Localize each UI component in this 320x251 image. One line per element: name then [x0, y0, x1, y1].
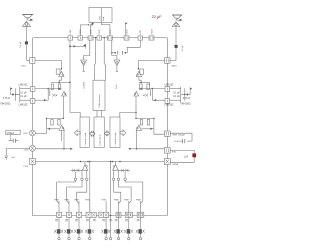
- label value S1: [55, 219, 58, 221]
- node L303 out: [63, 148, 65, 150]
- transistor QB7: [127, 229, 131, 233]
- label LM6132 C: [165, 83, 174, 86]
- wire col 59 upper: [58, 201, 60, 212]
- label C2 1.1uF: [182, 45, 184, 52]
- svg-text:X302: X302: [110, 29, 112, 35]
- wire col 79 lower: [78, 217, 80, 237]
- capacitor C7: [8, 135, 18, 143]
- terminal TR2: [117, 178, 119, 180]
- svg-text:PRB4: PRB4: [85, 200, 90, 202]
- svg-text:24 MHz: 24 MHz: [83, 81, 85, 88]
- label 22 uF: [152, 15, 163, 19]
- diode pair DB3: [74, 230, 83, 233]
- label L301: [21, 65, 26, 67]
- wire arrow stub L: [64, 148, 71, 150]
- wire drop col110: [110, 161, 111, 238]
- terminal TL3: [86, 178, 88, 180]
- svg-text:FB=100Ω: FB=100Ω: [180, 104, 190, 106]
- svg-text:1 µF: 1 µF: [184, 157, 189, 159]
- node opampC out: [152, 88, 154, 90]
- switch S5: [99, 212, 109, 217]
- transistor QB4: [88, 229, 92, 233]
- svg-text:L306: L306: [70, 29, 72, 35]
- wire ref ladder R: [170, 87, 181, 103]
- crystal X4: [149, 36, 154, 40]
- svg-text:X303: X303: [126, 29, 128, 35]
- crystal X2: [108, 36, 113, 40]
- svg-text:LM6132: LM6132: [165, 104, 174, 107]
- wire drvR stubs: [114, 170, 125, 178]
- wire col 140.5 upper: [140, 201, 142, 212]
- wire battery branch: [6, 149, 29, 156]
- ferrite FB1: [29, 159, 35, 165]
- node drvL a: [80, 161, 82, 163]
- svg-text:BB07: BB07: [172, 66, 178, 68]
- label value S8: [137, 219, 140, 221]
- wire main horizontal: [35, 161, 164, 163]
- wire col 89.8 upper: [89, 201, 91, 212]
- diode pair DB6: [114, 230, 123, 233]
- label LM6132 B: [19, 104, 28, 107]
- svg-text:PRB5: PRB5: [101, 200, 106, 202]
- diode D2: [62, 91, 67, 96]
- control box U4: [80, 117, 89, 148]
- ferrite FB2: [164, 131, 170, 136]
- ferrite FB3: [164, 148, 170, 153]
- capacitor C4: [97, 36, 102, 40]
- wire D3 left: [47, 128, 59, 130]
- wire top bus: [33, 37, 167, 39]
- label value S5: [102, 219, 112, 221]
- diode pair DB5: [102, 230, 111, 233]
- node D1 top: [61, 68, 63, 70]
- svg-text:X301: X301: [90, 29, 92, 35]
- label 1700uF box: [6, 130, 20, 135]
- wire X1 to TP1: [84, 40, 90, 60]
- capacitor marks CL: [52, 94, 57, 97]
- label C306: [80, 29, 82, 35]
- node at C3 riser: [88, 24, 89, 25]
- label BT1 line1: [99, 15, 101, 20]
- arrow on bias branch: [74, 45, 76, 47]
- label 3.76 ohm L: [3, 97, 10, 100]
- label X303: [126, 29, 128, 35]
- op-amp U1A: [30, 87, 35, 92]
- svg-text:3.76 Ω: 3.76 Ω: [183, 97, 190, 100]
- diode D6: [136, 125, 141, 130]
- diode D5: [134, 91, 139, 96]
- transistor Q2: [58, 84, 60, 90]
- svg-text:0.1 µF: 0.1 µF: [173, 96, 180, 98]
- wire to L302: [35, 118, 46, 133]
- wire opampD out: [152, 99, 165, 101]
- diode pair DB4: [85, 230, 94, 233]
- diode pair DB1: [54, 230, 63, 233]
- label LM6132 A: [19, 83, 28, 86]
- wire QR drop: [135, 130, 137, 148]
- label C1 1.1uF: [20, 41, 22, 48]
- arrow control-logic: [90, 131, 95, 136]
- wire ref mid R: [181, 88, 186, 101]
- wire DL: [71, 169, 83, 171]
- switch S4: [86, 212, 96, 217]
- label Logic circuit: [98, 134, 101, 145]
- transistor Q5: [147, 84, 149, 90]
- terminal TL2: [81, 178, 83, 180]
- arrow opampB out: [44, 99, 46, 101]
- label LM6132 D: [165, 104, 174, 107]
- svg-text:C307: C307: [99, 29, 101, 35]
- wire col 69 upper: [68, 201, 70, 212]
- flag VCC1: [92, 23, 94, 27]
- label ESR: [173, 134, 186, 136]
- node opampA out: [47, 88, 49, 90]
- arrow flag L: [12, 93, 14, 95]
- label 0.1uF c: [173, 93, 180, 95]
- svg-text:3.76 Ω: 3.76 Ω: [3, 97, 10, 100]
- label 3.76 ohm R: [183, 97, 190, 100]
- transistor QB2: [67, 229, 71, 233]
- transistor QB3: [77, 229, 81, 233]
- label BT1 line2: [102, 16, 105, 20]
- testpoint TP2: [114, 60, 120, 66]
- wire flag R: [186, 92, 190, 95]
- wire D5 drop: [135, 96, 137, 118]
- wire DR: [118, 169, 130, 171]
- logic box U5: [94, 117, 104, 148]
- terminal TB4: [89, 237, 91, 239]
- wire L1 drop: [70, 40, 80, 117]
- arrow stub L: [70, 148, 72, 150]
- label value S3: [75, 219, 78, 221]
- node USB pin1: [95, 37, 96, 38]
- resistor R1: [48, 89, 50, 101]
- label C307: [99, 29, 101, 35]
- label L303: [24, 150, 29, 152]
- diode pair DB2: [64, 230, 73, 233]
- varactor D4: [136, 69, 143, 77]
- terminal TB8: [139, 237, 141, 239]
- wire fan R2: [119, 181, 132, 204]
- flag REF R: [190, 88, 192, 92]
- arrow left port: [74, 130, 80, 136]
- label value S7: [125, 219, 128, 221]
- wire flag L: [10, 92, 14, 95]
- wire opampA out: [35, 88, 62, 89]
- svg-text:PRB8: PRB8: [136, 200, 141, 202]
- label Memory: [114, 132, 117, 145]
- label value S4: [86, 219, 96, 221]
- connector J1: [22, 21, 30, 26]
- wire cluster1L top: [51, 81, 70, 83]
- wire TP2 stem: [116, 66, 118, 72]
- terminal TB5: [105, 237, 107, 239]
- transistor Q10: [113, 162, 118, 171]
- wire to C1R: [154, 118, 165, 134]
- node stub R: [136, 148, 138, 150]
- crystal X3: [124, 36, 129, 40]
- wire col 59 lower: [58, 217, 60, 237]
- inductor L2: [138, 36, 143, 40]
- label FB3: [172, 151, 177, 153]
- wire right rail: [166, 38, 168, 216]
- wire col 118.5 lower: [118, 217, 120, 237]
- transistor Q3: [51, 120, 53, 126]
- wire USB pin2: [104, 38, 105, 81]
- inductor L304: [165, 58, 170, 64]
- transistor Q8: [140, 120, 142, 126]
- wire D6 right: [142, 128, 154, 130]
- inductor L303: [30, 145, 36, 151]
- capacitor C9 1uF: [192, 153, 196, 157]
- terminal TB1: [58, 237, 60, 239]
- node drvL b: [87, 161, 89, 163]
- node USB pin2: [104, 37, 105, 38]
- wire U3 to logic: [97, 111, 102, 118]
- svg-text:0.1 µF: 0.1 µF: [173, 93, 180, 95]
- label L302: [23, 133, 28, 135]
- wire cluster2R top: [135, 118, 154, 119]
- label 24 MHz: [83, 81, 85, 88]
- arrow logic-memory: [105, 131, 110, 136]
- testpoint TP1: [81, 60, 87, 66]
- wire col 106.1 upper: [105, 201, 107, 212]
- svg-text:FB=100Ω: FB=100Ω: [0, 104, 10, 106]
- label 0.1uF d: [173, 96, 180, 98]
- diode pair DB8: [136, 230, 145, 233]
- svg-text:0.1 µF: 0.1 µF: [20, 93, 27, 95]
- svg-text:USB interface: USB interface: [98, 93, 101, 107]
- wire D2 drop: [62, 96, 64, 118]
- battery B2: [2, 156, 8, 160]
- wire drvL stubs: [75, 170, 86, 178]
- svg-text:Logic circuit: Logic circuit: [98, 134, 101, 145]
- wire col 69 lower: [68, 217, 70, 237]
- op-amp U1B: [30, 99, 35, 104]
- wire BT1 pin1: [91, 22, 93, 35]
- op-amp U2B: [165, 99, 170, 104]
- arrow right port: [120, 130, 126, 136]
- wire col 128.8 upper: [128, 201, 130, 212]
- capacitor C6: [112, 51, 127, 55]
- arrow opampD out: [154, 99, 156, 101]
- node L1 branch: [69, 45, 71, 47]
- wire fan R3: [114, 181, 121, 204]
- resistor R2: [151, 89, 153, 101]
- transistor Q4: [58, 120, 60, 126]
- transistor QB6: [116, 229, 120, 233]
- wire arrow ext R: [130, 148, 136, 150]
- svg-text:LM6132: LM6132: [19, 83, 28, 86]
- wire D4 down: [139, 77, 141, 83]
- label value S2: [65, 219, 68, 221]
- label value S6: [115, 219, 118, 221]
- label 0.1uF a: [20, 93, 27, 95]
- label X302: [110, 29, 112, 35]
- wire D3 drop: [62, 130, 64, 141]
- flag X3: [125, 22, 127, 35]
- wire L2 drop: [127, 40, 140, 53]
- transistor QB8: [138, 229, 142, 233]
- capacitor C1 1.1uF: [25, 41, 28, 44]
- wire C3 riser: [80, 25, 88, 36]
- wire USB pin1: [94, 38, 95, 81]
- label Pin1: [116, 84, 118, 89]
- arrow flag R: [186, 93, 188, 95]
- label L307: [140, 29, 142, 35]
- transistor Q1: [51, 84, 53, 90]
- switch S2: [66, 212, 71, 217]
- capacitor marks CR: [143, 94, 148, 97]
- label 1uF R: [184, 157, 189, 159]
- wire col 128.8 lower: [128, 217, 130, 237]
- terminal TR1: [124, 178, 126, 180]
- node drvR a: [119, 161, 121, 163]
- wire C9 down: [170, 157, 194, 162]
- svg-text:0.1 µF: 0.1 µF: [20, 96, 27, 98]
- capacitor C3: [78, 36, 83, 40]
- capacitor C8: [174, 139, 185, 143]
- wire D1 down: [59, 77, 61, 83]
- label 1uF bat: [11, 157, 16, 159]
- svg-text:PRB2: PRB2: [64, 200, 69, 202]
- svg-text:1 µF: 1 µF: [11, 157, 16, 159]
- svg-text:Control circuit: Control circuit: [84, 132, 87, 145]
- wire col 140.5 lower: [140, 217, 142, 237]
- label P306: [114, 200, 119, 202]
- wire bottom bus: [32, 215, 167, 217]
- wire cluster1R top: [139, 82, 149, 85]
- connector J2: [172, 22, 180, 27]
- memory box U6: [110, 117, 120, 148]
- svg-text:PRB3: PRB3: [74, 200, 79, 202]
- terminal TR3: [113, 178, 115, 180]
- wire L301 out: [35, 61, 62, 69]
- wire arrow stub R: [136, 148, 164, 150]
- transistor QB5: [104, 229, 108, 233]
- node D4 top: [138, 68, 140, 70]
- diode marks DL: [72, 169, 80, 172]
- label FB4: [173, 163, 179, 166]
- label FB1: [24, 166, 29, 168]
- wire ref mid L: [15, 88, 20, 101]
- svg-text:batt: batt: [102, 16, 105, 20]
- terminal TB3: [78, 237, 80, 239]
- transistor Q9: [82, 162, 87, 171]
- inductor L301: [30, 58, 35, 64]
- wire fan L2: [67, 181, 82, 204]
- label X301: [90, 29, 92, 35]
- battery module BT1: [89, 8, 112, 23]
- wire left rail: [31, 38, 33, 216]
- wire col 89.8 lower: [89, 217, 91, 237]
- wire drop col89: [89, 161, 90, 212]
- wire L303 out: [35, 148, 64, 150]
- svg-text:PRB6: PRB6: [114, 200, 119, 202]
- wire X2 to TP2: [112, 40, 117, 60]
- wire cluster2L top: [46, 118, 64, 119]
- svg-text:µF: µF: [157, 15, 162, 19]
- wire L304 out: [138, 61, 164, 69]
- node cluster1R a: [140, 82, 142, 84]
- label P301: [54, 200, 59, 202]
- wire AE1 feed: [26, 26, 29, 60]
- wire opampC out: [139, 88, 165, 89]
- terminal T110: [109, 237, 111, 239]
- wire TP1 stem: [83, 66, 85, 72]
- switch S1: [56, 212, 61, 217]
- svg-text:X304: X304: [151, 29, 153, 35]
- label L304: [172, 66, 178, 68]
- label 0.1uF b: [20, 96, 27, 98]
- label P308: [136, 200, 141, 202]
- svg-text:1700µF: 1700µF: [7, 133, 15, 135]
- wire FB3 out: [170, 150, 194, 153]
- transistor QB1: [57, 229, 61, 233]
- inductor L302: [30, 130, 36, 136]
- arrow D6 right: [151, 128, 153, 130]
- flag REF L: [10, 88, 12, 92]
- svg-text:1.1 µF: 1.1 µF: [182, 45, 184, 52]
- wire bias branch: [70, 45, 86, 47]
- diode marks DR: [121, 169, 129, 172]
- label P305: [101, 200, 106, 202]
- wire col 106.1 lower: [105, 217, 107, 237]
- transistor Q7: [147, 120, 149, 126]
- switch S7: [125, 212, 132, 217]
- transistor Q6: [140, 84, 142, 90]
- antenna AE1: [22, 15, 33, 21]
- label L306: [70, 29, 72, 35]
- label P304: [85, 200, 90, 202]
- terminal TB7: [128, 237, 130, 239]
- wire opampB out: [35, 99, 49, 101]
- usb box U3: [93, 80, 105, 110]
- label X304: [151, 29, 153, 35]
- svg-text:Control circuit: Control circuit: [114, 132, 117, 145]
- terminal TB2: [68, 237, 70, 239]
- inductor L1: [68, 36, 73, 40]
- svg-text:PRB1: PRB1: [54, 200, 59, 202]
- flag on AE2: [178, 19, 182, 21]
- node cluster1L a: [58, 82, 60, 84]
- terminal TB6: [117, 237, 119, 239]
- svg-text:L307: L307: [140, 29, 142, 35]
- label P302: [64, 200, 69, 202]
- label Control circuit: [84, 132, 87, 145]
- node cluster1L b: [69, 82, 71, 84]
- label P303: [74, 200, 79, 202]
- svg-text:LM6132: LM6132: [165, 83, 174, 86]
- switch S3: [76, 212, 81, 217]
- wire col 118.5 upper: [118, 201, 120, 212]
- flag on AE1: [29, 19, 33, 22]
- wire col 79 upper: [78, 201, 80, 212]
- wire fan L1: [57, 181, 76, 204]
- svg-text:E05A: E05A: [173, 163, 179, 166]
- flag VCC2: [83, 44, 86, 49]
- wire FB2 loop: [170, 133, 192, 141]
- label USB interface: [98, 93, 101, 107]
- varactor D1: [56, 69, 64, 77]
- svg-text:PRB7: PRB7: [124, 200, 129, 202]
- label FB 100 R: [180, 104, 190, 106]
- wire fan R1: [125, 181, 143, 204]
- svg-text:1.1 µF: 1.1 µF: [20, 41, 22, 48]
- diode D3: [59, 125, 64, 130]
- svg-text:LM6132: LM6132: [19, 104, 28, 107]
- wire memory in: [120, 112, 137, 117]
